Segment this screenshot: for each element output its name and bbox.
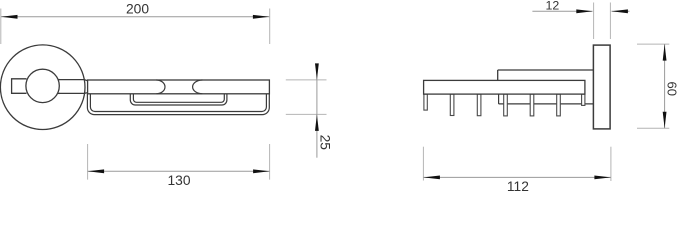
- svg-text:200: 200: [126, 1, 149, 16]
- basket inner rim outer wall: [130, 94, 227, 105]
- dimension 112 extension line right: [610, 147, 612, 181]
- svg-text:60: 60: [664, 82, 678, 96]
- dimension 200 line: [1, 16, 269, 18]
- dimension 25 leader line: [316, 66, 318, 158]
- dimension 130 line: [88, 170, 270, 172]
- svg-text:130: 130: [167, 173, 190, 188]
- support arm top line: [498, 69, 594, 71]
- dimension 60 extension line bottom: [637, 127, 669, 129]
- dimension 25 extension line top: [286, 79, 327, 81]
- wire prong P5: [530, 94, 534, 116]
- dimension 25 extension line bottom: [286, 113, 327, 115]
- lower bracket bottom line: [499, 103, 594, 105]
- basket outer rim outer wall: [87, 94, 269, 115]
- dimension 60 line: [664, 44, 666, 128]
- svg-text:12: 12: [546, 0, 560, 12]
- dimension 200 arrow left: [1, 15, 18, 19]
- dimension 200 extension line left: [0, 9, 2, 45]
- dimension 12 arrow right (points left): [611, 9, 628, 13]
- top rail bar: [88, 80, 270, 94]
- svg-text:112: 112: [507, 179, 529, 191]
- basket inner rim inner wall: [133, 94, 224, 103]
- dimension 12 arrow left (points right): [576, 9, 593, 13]
- dimension 130 arrow right: [253, 169, 270, 173]
- wall flange big circle: [0, 45, 85, 130]
- dimension 60 arrow bottom (points down): [663, 112, 667, 129]
- dimension 130 extension line right: [269, 144, 271, 180]
- hub inner circle: [26, 69, 59, 102]
- wire prong P6: [557, 94, 561, 116]
- support arm left edge: [497, 70, 499, 80]
- wire prong P1 (short, at bar left end): [424, 94, 427, 110]
- wire prong P4: [504, 94, 508, 116]
- dimension 200 arrow right: [253, 15, 270, 19]
- wall plate (side): [593, 45, 610, 129]
- lower bracket left edge: [498, 94, 500, 104]
- dimension 130 extension line left: [87, 144, 89, 180]
- mounting boss rectangle (left of hub): [12, 79, 27, 94]
- dimension 12 extension line left: [593, 3, 595, 40]
- dimension 25 arrow top: [315, 63, 319, 80]
- dimension 112 extension line left: [422, 147, 424, 181]
- svg-text:25: 25: [317, 135, 332, 151]
- dimension 112 arrow left: [423, 176, 440, 180]
- dimension 60 arrow top (points up): [663, 44, 667, 61]
- dimension 112 line: [423, 176, 611, 178]
- dimension 25 arrow bottom: [315, 114, 319, 130]
- basket top rail (side): [424, 80, 585, 94]
- basket outer rim inner wall: [90, 94, 266, 112]
- arm bottom line: [59, 92, 87, 95]
- dimension 12 extension line right: [609, 3, 611, 40]
- dimension 60 extension line top: [637, 43, 669, 45]
- rail left tube end cap arc: [156, 80, 165, 94]
- rail right tube end cap arc: [193, 80, 203, 94]
- wire prong P2: [450, 94, 454, 115]
- wire prong P3: [477, 94, 481, 116]
- dimension 200 extension line right: [269, 9, 271, 45]
- arm stub lines hidden behind hub: [50, 79, 60, 81]
- dimension 12 line left part: [532, 10, 592, 12]
- dimension 12 line right part: [612, 10, 630, 12]
- wire prong P7 (short, at bar end): [582, 94, 585, 105]
- arm top line: [59, 80, 87, 81]
- dimension 130 arrow left: [88, 169, 105, 173]
- dimension 112 arrow right: [594, 176, 611, 180]
